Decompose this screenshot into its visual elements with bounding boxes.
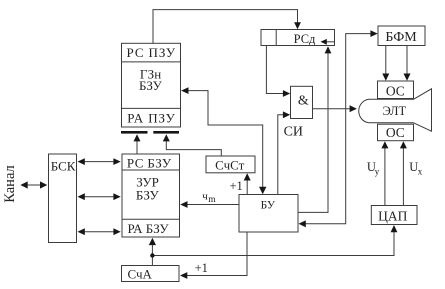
svg-text:РСд: РСд [294,32,316,46]
svg-text:m: m [208,195,216,205]
svg-text:x: x [418,167,423,177]
svg-text:СчА: СчА [127,267,152,282]
svg-text:СчСт: СчСт [215,157,245,172]
svg-text:БЗУ: БЗУ [139,78,163,93]
svg-text:БУ: БУ [261,200,276,212]
svg-text:РА БЗУ: РА БЗУ [128,221,170,236]
svg-text:РС БЗУ: РС БЗУ [127,156,172,171]
svg-text:БЗУ: БЗУ [136,187,160,202]
svg-text:ЦАП: ЦАП [378,209,407,224]
svg-text:y: y [375,167,380,177]
svg-text:БСК: БСК [51,158,76,173]
svg-text:РА ПЗУ: РА ПЗУ [127,110,175,125]
svg-text:&: & [298,94,309,109]
svg-text:Канал: Канал [2,165,18,202]
svg-text:РС ПЗУ: РС ПЗУ [127,45,177,60]
svg-text:СИ: СИ [284,125,303,140]
svg-text:+1: +1 [195,261,208,275]
svg-text:ОС: ОС [386,83,405,98]
svg-text:ЭЛТ: ЭЛТ [383,104,407,118]
svg-text:ОС: ОС [386,125,405,140]
svg-text:БФМ: БФМ [385,30,417,45]
svg-text:+1: +1 [230,179,243,193]
